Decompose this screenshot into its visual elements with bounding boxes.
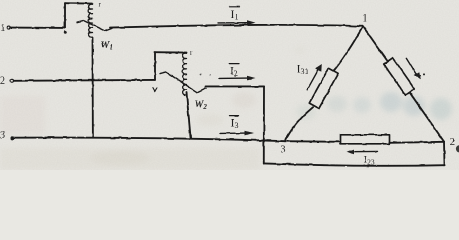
triangle bottom right segment [390,142,445,143]
wattmeter W1 voltage coil [89,4,93,37]
arrow I1 [218,22,248,24]
W2 voltage-coil wire down to line 3 [187,93,191,138]
scan grain overlay [0,0,459,170]
W1 voltage-coil wire down to line 3 [92,37,94,137]
terminal dot line 3 [11,136,15,140]
W1 polarity dot [64,31,67,34]
W2 polarity mark [153,88,157,92]
specks [200,74,202,76]
load box on side 2-3 [341,135,390,144]
current label I3 [230,115,239,117]
triangle right side upper segment [363,26,388,61]
wire line 2 drop down [263,86,265,163]
wattmeter W1 current-loop top horizontal [65,2,93,4]
W1 moving-coil slash [77,21,112,31]
scan shading bottom band [0,148,260,170]
ghost bleed-through marks [296,104,316,120]
triangle left side lower segment [285,107,313,141]
current label I1 [230,6,240,8]
wire line 1 right segment to node 1 [110,25,363,28]
terminal circle line 1 [7,26,10,29]
wire up to node 2 [443,142,446,165]
arrow I12 (unlabeled, along side 1-2) [406,58,417,75]
wire line 2 right segment [206,85,265,87]
ink blob at right margin [456,145,459,152]
triangle left side upper segment [334,26,363,70]
load box on side 1-2 [384,58,415,96]
triangle right side lower segment [409,92,444,142]
load box on side 3-1 [309,68,338,108]
terminal circle line 2 [11,79,14,82]
arrow I23 (pointing left) [352,150,378,152]
wattmeter W2 voltage coil [183,53,187,95]
triangle bottom left segment [285,140,341,143]
smudged label dots near arrow [420,74,422,76]
W2 moving-coil slash [160,72,206,93]
wire line 3 [12,138,285,142]
paper background [0,0,459,170]
wattmeter W1 current-loop left vertical [64,3,66,28]
wire bottom return [264,163,445,165]
wire line 2 left segment [14,79,155,82]
wattmeter W2 current-loop top horizontal [155,51,187,53]
current label I2 [229,63,239,65]
arrow I31 [307,69,319,90]
wattmeter W2 current-loop left vertical [154,52,156,80]
arrow I3 [220,132,246,134]
arrow I2 [219,77,248,79]
wire line 1 left segment [11,27,66,29]
